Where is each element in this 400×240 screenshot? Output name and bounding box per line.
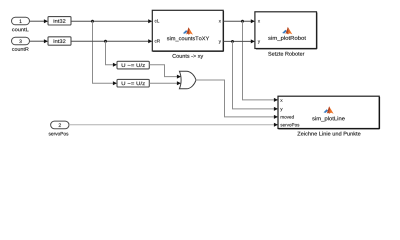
wire int32 to cR with branch <box>71 39 152 43</box>
wire countL to int32 <box>30 19 49 23</box>
wire branch countR down to upper detect-change <box>106 41 118 67</box>
junction on x wire <box>241 20 244 23</box>
junction on countR wire <box>104 40 107 43</box>
inport 1 countL <box>12 17 30 31</box>
wire branch countL down to lower detect-change <box>93 21 118 85</box>
wire lower detect-change to OR gate <box>149 81 181 85</box>
inport 2 servoPos <box>49 121 69 135</box>
MATLAB function block sim_plotLine <box>278 96 380 129</box>
junction on y wire <box>231 40 234 43</box>
MATLAB logo plotRobot <box>282 27 292 35</box>
MATLAB function block sim_plotRobot <box>255 12 317 49</box>
label Setzte Roboter <box>268 52 304 56</box>
MATLAB function block sim_countsToXY <box>152 10 223 51</box>
wire OR gate to moved input <box>196 80 278 119</box>
wire upper detect-change to OR gate <box>149 65 181 79</box>
detect change block upper U ~= U/z <box>117 61 149 69</box>
MATLAB logo plotLine <box>324 106 334 114</box>
wire y output to plotRobot <box>224 39 255 43</box>
detect change block lower U ~= U/z <box>117 79 149 87</box>
inport 3 countR <box>12 37 30 51</box>
wire y branch down to plotLine y <box>233 41 279 111</box>
MATLAB logo countsToXY <box>183 27 193 35</box>
wire int32 to cL with branch <box>71 19 152 23</box>
wire countR to int32 <box>30 39 49 43</box>
junction on countL wire <box>91 20 94 23</box>
wire servoPos to plotLine <box>69 123 278 127</box>
data type conversion int32 (upper) <box>48 17 71 25</box>
label Zeichne Linie und Punkte <box>297 132 360 136</box>
wire x branch down to plotLine x <box>243 21 279 102</box>
wire x output to plotRobot <box>224 19 255 23</box>
label Counts -> xy <box>172 54 203 59</box>
OR gate (logical operator) <box>179 71 196 89</box>
data type conversion int32 (lower) <box>48 37 71 45</box>
